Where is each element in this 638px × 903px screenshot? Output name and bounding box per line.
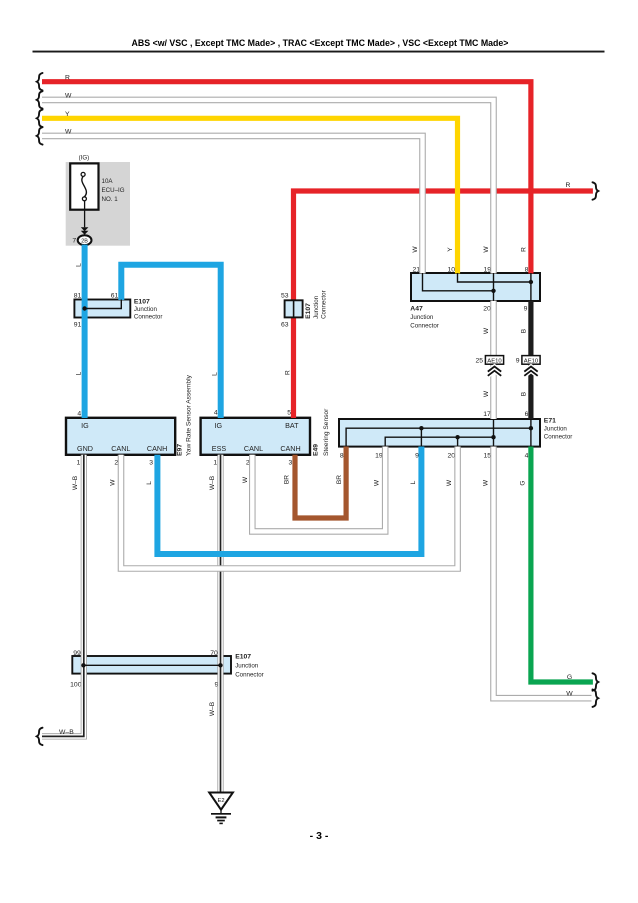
svg-text:L: L: [410, 480, 417, 484]
E107 (middle) pin labels 53 63: [281, 293, 289, 329]
svg-text:CANH: CANH: [280, 444, 300, 453]
svg-text:4: 4: [525, 453, 529, 460]
E97 terminal labels: [77, 421, 167, 453]
svg-text:G: G: [567, 674, 572, 681]
svg-text:W: W: [483, 390, 490, 397]
connector arrow (double arrowhead): [81, 227, 89, 235]
svg-text:R: R: [566, 182, 571, 189]
svg-text:ABS <w/ VSC , Except TMC Made>: ABS <w/ VSC , Except TMC Made> , TRAC <E…: [132, 38, 509, 48]
svg-text:E97: E97: [177, 444, 184, 456]
page connector R (right): [566, 182, 599, 200]
wire BR E49 CANH to E71 pin 8: [295, 447, 346, 519]
fuse F ECU-IG box: [70, 163, 98, 209]
svg-text:L: L: [146, 481, 153, 485]
E49 name label (rotated): [313, 408, 330, 456]
svg-text:W–B: W–B: [209, 475, 216, 490]
wire color labels above A47: [412, 246, 527, 253]
page connector W (top left): [37, 91, 72, 108]
junction connector E107 (middle) box: [285, 300, 303, 317]
fuse value label 10A ECU-IG NO. 1: [102, 178, 125, 203]
svg-text:9: 9: [524, 305, 528, 312]
svg-text:CANH: CANH: [147, 444, 167, 453]
svg-text:CANL: CANL: [244, 444, 263, 453]
E107 (left) internal junction: [82, 300, 121, 311]
E97 pin labels 4 1 2 3: [77, 411, 154, 467]
wire B A47 pin 9 to E71 pin 6 via AE10: [528, 301, 533, 420]
E71 internal CANL bus (pins 19 20 15 17): [385, 419, 495, 447]
page connector G (right): [567, 673, 598, 690]
steering sensor E49 box: [201, 418, 310, 455]
svg-text:6: 6: [525, 411, 529, 418]
svg-text:Y: Y: [447, 247, 454, 252]
wire R from page edge to A47 pin 8: [42, 82, 531, 274]
svg-text:17: 17: [483, 411, 491, 418]
wire R from page edge via E107 to E49 BAT pin 5: [294, 191, 593, 418]
svg-text:W: W: [412, 246, 419, 253]
svg-text:Connector: Connector: [321, 290, 328, 319]
yaw rate sensor E97 box: [66, 418, 175, 455]
A47 internal junction (pin 21 to pin 19/20 column): [423, 273, 496, 301]
A47 internal junction (yellow to pin 8/9 column): [458, 273, 534, 301]
svg-text:1: 1: [77, 460, 81, 467]
wire Y from page edge to A47 pin 10: [42, 118, 458, 273]
svg-text:1: 1: [213, 460, 217, 467]
svg-text:ECU–IG: ECU–IG: [102, 187, 125, 194]
svg-text:B: B: [520, 328, 527, 333]
svg-text:W–B: W–B: [209, 701, 216, 716]
wire W E71 pin 15 to page edge: [494, 447, 592, 699]
svg-text:W: W: [242, 476, 249, 483]
E71 name label: [544, 418, 573, 441]
svg-text:10A: 10A: [102, 178, 114, 185]
svg-text:Connector: Connector: [544, 434, 573, 441]
wire G E71 pin 4 to page edge: [531, 447, 593, 683]
svg-text:- 3 -: - 3 -: [310, 830, 329, 842]
connector AE10 pin 9 (black wire): [516, 356, 540, 376]
junction connector A47 box: [411, 273, 540, 301]
svg-text:W–B: W–B: [59, 729, 74, 736]
junction connector E107 (bottom) box: [72, 656, 231, 674]
E97 name label (rotated): [177, 374, 193, 456]
svg-text:3: 3: [149, 460, 153, 467]
svg-text:W: W: [566, 690, 573, 697]
svg-text:ESS: ESS: [212, 444, 227, 453]
svg-text:20: 20: [483, 305, 491, 312]
E107 (bottom) name label: [235, 654, 264, 679]
E107 (bottom) internal junction: [81, 663, 222, 667]
E107 (left) name label: [134, 298, 163, 320]
svg-text:E49: E49: [313, 444, 320, 456]
fuse label (IG): [79, 154, 90, 161]
svg-text:GND: GND: [77, 444, 93, 453]
svg-text:E2: E2: [217, 798, 224, 804]
E107 (middle) name label (rotated): [305, 290, 328, 319]
svg-text:8: 8: [340, 453, 344, 460]
svg-text:Connector: Connector: [235, 671, 264, 678]
svg-text:W: W: [65, 129, 72, 136]
svg-text:A47: A47: [410, 305, 423, 312]
svg-text:Junction: Junction: [313, 295, 320, 319]
svg-text:W–B: W–B: [72, 475, 79, 490]
svg-text:E107: E107: [305, 303, 312, 319]
svg-text:61: 61: [111, 293, 119, 300]
svg-text:Connector: Connector: [134, 314, 163, 321]
svg-text:L: L: [75, 263, 82, 267]
svg-text:BR: BR: [336, 475, 343, 484]
wire color label W-B at E2 ground lead: [209, 701, 216, 716]
svg-text:G: G: [519, 480, 526, 485]
connector AE10 pin 25 (white wire): [475, 356, 503, 376]
svg-text:Steering Sensor: Steering Sensor: [323, 408, 330, 456]
svg-text:25: 25: [475, 358, 483, 365]
E71 internal CANH bus (pins 8 9 6 4): [346, 419, 533, 447]
svg-text:19: 19: [375, 453, 383, 460]
svg-text:53: 53: [281, 293, 289, 300]
page number: [310, 830, 329, 842]
svg-text:IG: IG: [81, 421, 89, 430]
svg-text:2B: 2B: [81, 238, 88, 244]
wire color labels below E71: [336, 475, 526, 486]
junction connector E107 (left) box: [74, 300, 130, 318]
svg-text:9: 9: [516, 358, 520, 365]
svg-text:NO. 1: NO. 1: [102, 196, 119, 203]
svg-text:Junction: Junction: [544, 426, 568, 433]
svg-text:3: 3: [289, 460, 293, 467]
svg-text:E107: E107: [235, 654, 251, 661]
svg-text:IG: IG: [215, 421, 223, 430]
svg-text:20: 20: [448, 453, 456, 460]
title: [132, 38, 509, 48]
svg-text:L: L: [212, 372, 219, 376]
page connector W2 (top left): [37, 127, 72, 144]
wire color labels between AE10 and E71: [483, 390, 527, 397]
fuse gray panel: [66, 162, 130, 246]
svg-text:L: L: [75, 371, 82, 375]
page connector W (bottom right): [566, 690, 598, 707]
svg-text:7: 7: [72, 238, 76, 245]
svg-text:21: 21: [412, 267, 420, 274]
wire fuse output: [84, 201, 86, 227]
svg-text:81: 81: [74, 293, 82, 300]
junction connector E71 box: [339, 419, 540, 447]
svg-text:70: 70: [210, 650, 218, 657]
svg-text:E107: E107: [134, 298, 150, 305]
E107 (bottom) pin labels 99 70 100 9: [70, 650, 218, 688]
wire W-B E97 GND to E107 pin 99/100 to page edge: [42, 455, 84, 737]
svg-text:W: W: [109, 479, 116, 486]
svg-text:W: W: [65, 93, 72, 100]
wire W E49 CANL to E71 pin 19: [252, 447, 385, 532]
wire color labels, left column: [75, 263, 291, 376]
E107 (left) pin labels 81 61 91: [74, 293, 119, 329]
svg-text:Connector: Connector: [410, 322, 439, 329]
E71 pin labels 17 6 8 19 9 20 15 4: [340, 411, 529, 459]
svg-text:Y: Y: [65, 111, 70, 118]
svg-text:BR: BR: [283, 475, 290, 484]
wire W-B E49 ESS to E107 pin 70/9 to ground E2: [217, 455, 223, 792]
ground E2: [209, 793, 233, 825]
A47 pin labels 21 10 19 8 20 9: [412, 267, 528, 313]
svg-text:R: R: [65, 74, 70, 81]
svg-text:91: 91: [74, 322, 82, 329]
wire color labels below sensor boxes: [72, 475, 290, 490]
svg-text:63: 63: [281, 322, 289, 329]
A47 name label: [410, 305, 439, 329]
svg-text:R: R: [520, 247, 527, 252]
svg-text:8: 8: [525, 267, 529, 274]
svg-text:W: W: [483, 246, 490, 253]
wire W E97 CANL to E71 pin 20: [121, 447, 458, 569]
title rule: [33, 51, 605, 53]
svg-text:(IG): (IG): [79, 154, 90, 161]
svg-text:15: 15: [483, 453, 491, 460]
svg-text:B: B: [520, 391, 527, 396]
svg-text:AE10: AE10: [487, 358, 502, 364]
svg-text:4: 4: [77, 411, 81, 418]
page connector W-B (bottom left): [37, 728, 74, 745]
page connector R (top left): [37, 73, 70, 90]
svg-text:W: W: [446, 479, 453, 486]
svg-text:AE10: AE10: [524, 358, 539, 364]
wire W from page edge to A47 pin 19: [42, 100, 494, 274]
E49 pin labels 4 5 1 2 3: [213, 410, 292, 467]
wire W from page edge to A47 pin 21: [42, 136, 423, 274]
wire W A47 pin 20 to E71 pin 17 via AE10: [490, 301, 497, 420]
svg-text:W: W: [482, 479, 489, 486]
svg-text:Junction: Junction: [410, 314, 434, 321]
svg-text:E71: E71: [544, 418, 556, 425]
svg-text:5: 5: [287, 410, 291, 417]
svg-text:100: 100: [70, 682, 82, 689]
svg-text:19: 19: [483, 267, 491, 274]
wire color labels between A47 and AE10: [483, 327, 527, 334]
wire L E107 pin 61 to E49 IG pin 4: [121, 265, 220, 418]
svg-text:W: W: [374, 479, 381, 486]
svg-text:R: R: [284, 370, 291, 375]
wire L fuse 2B to E97 IG pin 4 via E107 pin 81/91: [82, 245, 88, 418]
E49 terminal labels: [212, 421, 301, 453]
svg-text:99: 99: [73, 650, 81, 657]
svg-text:BAT: BAT: [285, 421, 299, 430]
svg-text:Junction: Junction: [235, 663, 259, 670]
svg-text:Yaw Rate Sensor Assembly: Yaw Rate Sensor Assembly: [185, 374, 192, 456]
connector 2B oval, pin 7: [72, 235, 91, 245]
page connector Y (top left): [37, 110, 70, 127]
svg-text:10: 10: [447, 267, 455, 274]
svg-text:W: W: [483, 327, 490, 334]
svg-text:Junction: Junction: [134, 306, 158, 313]
svg-text:CANL: CANL: [111, 444, 130, 453]
wire L E97 CANH to E71 pin 9: [157, 447, 421, 555]
svg-text:4: 4: [214, 410, 218, 417]
